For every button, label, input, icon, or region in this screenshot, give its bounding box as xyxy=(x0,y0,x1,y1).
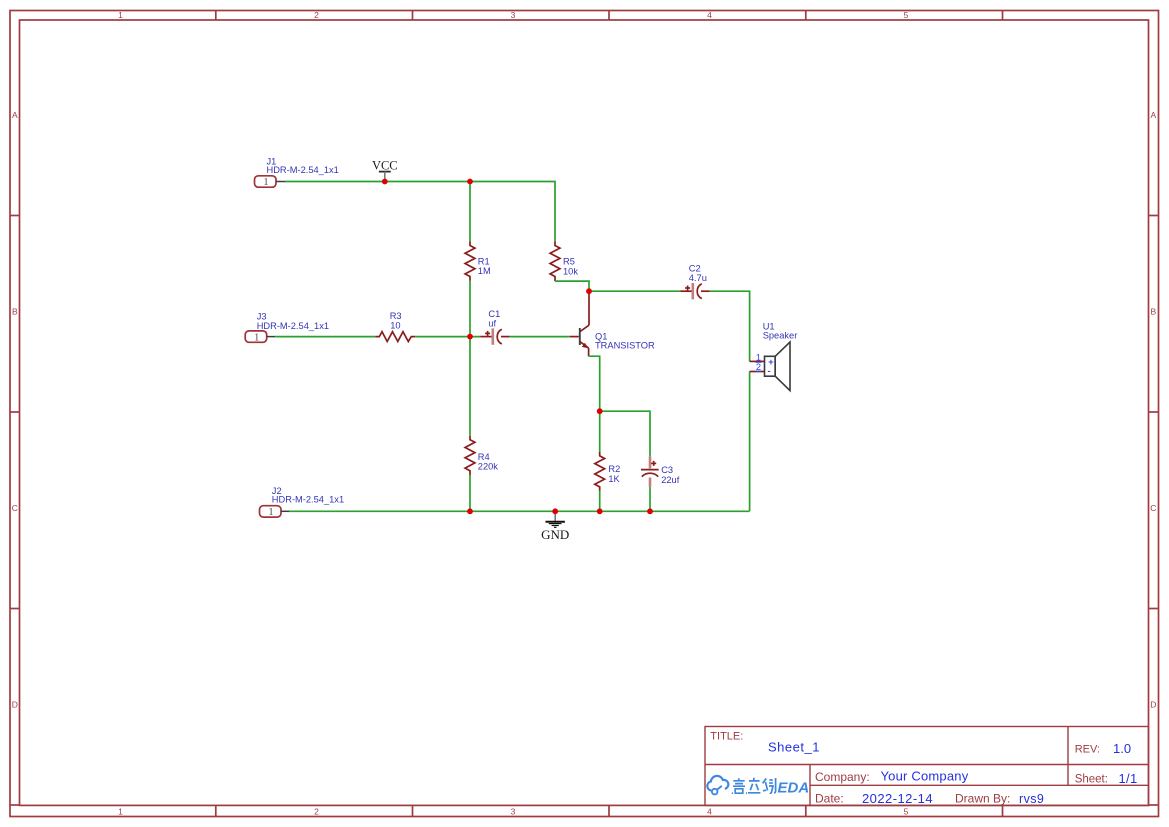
svg-text:1: 1 xyxy=(118,807,123,817)
svg-text:4: 4 xyxy=(707,807,712,817)
resistor R1 1M xyxy=(465,242,491,281)
logo JLCEDA xyxy=(707,776,728,795)
resistor R5 10k xyxy=(550,242,578,282)
wire ground rail xyxy=(289,510,749,512)
svg-text:REV:: REV: xyxy=(1075,744,1100,756)
svg-text:1: 1 xyxy=(756,352,761,362)
svg-text:rvs9: rvs9 xyxy=(1019,792,1044,806)
wire collector node to C2 xyxy=(589,290,680,292)
junction ground rail at GND xyxy=(552,508,558,514)
svg-text:C: C xyxy=(1150,503,1156,513)
svg-text:Speaker: Speaker xyxy=(763,331,798,341)
svg-text:4: 4 xyxy=(707,10,712,20)
svg-text:C: C xyxy=(12,503,18,513)
svg-text:4.7u: 4.7u xyxy=(689,273,707,283)
resistor R3 10 xyxy=(375,311,415,341)
wire R3 to C1 junction xyxy=(415,336,480,338)
svg-text:Company:: Company: xyxy=(815,770,870,784)
svg-text:1: 1 xyxy=(254,332,259,343)
svg-text:5: 5 xyxy=(904,807,909,817)
wire R2 to ground rail xyxy=(599,491,601,511)
svg-text:B: B xyxy=(12,307,18,317)
connector J3 xyxy=(245,312,329,344)
svg-text:10: 10 xyxy=(390,321,400,331)
svg-text:uf: uf xyxy=(488,319,496,329)
svg-text:TRANSISTOR: TRANSISTOR xyxy=(595,340,655,350)
svg-text:3: 3 xyxy=(511,807,516,817)
resistor R2 1K xyxy=(595,452,621,491)
wire R1 bottom to mid rail xyxy=(469,281,471,337)
capacitor C1 uf xyxy=(480,309,509,345)
junction mid rail at R1/R4 xyxy=(467,334,473,340)
svg-text:1.0: 1.0 xyxy=(1113,741,1131,756)
svg-text:22uf: 22uf xyxy=(661,475,680,485)
svg-text:-: - xyxy=(768,366,771,377)
speaker U1 xyxy=(750,322,798,391)
power flag VCC xyxy=(372,158,398,181)
junction top rail at R1 xyxy=(467,179,473,185)
svg-text:2: 2 xyxy=(314,807,319,817)
wire R4 to ground rail xyxy=(469,475,471,511)
junction VCC dot xyxy=(382,179,388,185)
svg-text:Date:: Date: xyxy=(815,791,844,805)
connector J2 xyxy=(260,486,345,518)
connector J1 xyxy=(255,156,339,188)
svg-text:C1: C1 xyxy=(488,309,500,319)
junction collector node xyxy=(586,288,592,294)
junction ground rail at R2 xyxy=(597,508,603,514)
svg-text:3: 3 xyxy=(511,10,516,20)
wire C3 to ground rail xyxy=(649,487,651,512)
svg-text:Sheet:: Sheet: xyxy=(1075,774,1108,786)
svg-text:10k: 10k xyxy=(563,266,578,276)
wire emitter to R2 node xyxy=(589,356,600,411)
svg-text:VCC: VCC xyxy=(372,158,398,172)
svg-text:Your Company: Your Company xyxy=(881,768,969,783)
capacitor C3 22uf xyxy=(641,456,680,486)
svg-text:Drawn By:: Drawn By: xyxy=(955,791,1010,805)
junction emitter node xyxy=(597,408,603,414)
wire emitter node down to R2 xyxy=(599,411,601,452)
svg-text:A: A xyxy=(12,110,18,120)
svg-text:C3: C3 xyxy=(661,465,673,475)
capacitor C2 4.7u xyxy=(680,263,709,299)
junction ground rail at C3 xyxy=(647,508,653,514)
svg-text:1: 1 xyxy=(264,177,269,188)
wire speaker pin2 to ground rail xyxy=(749,372,751,512)
svg-text:1/1: 1/1 xyxy=(1119,771,1138,786)
wire R1 top drop xyxy=(469,182,471,242)
svg-text:2: 2 xyxy=(756,362,761,372)
wire R1 junction down to R4 xyxy=(469,337,471,436)
junction ground rail at R4 xyxy=(467,508,473,514)
svg-text:A: A xyxy=(1150,110,1156,120)
title block xyxy=(705,727,1149,806)
svg-text:EDA: EDA xyxy=(778,780,810,797)
transistor Q1 xyxy=(570,291,655,356)
svg-text:HDR-M-2.54_1x1: HDR-M-2.54_1x1 xyxy=(272,495,344,505)
svg-text:D: D xyxy=(1150,700,1156,710)
wire R5 bottom to collector node xyxy=(555,281,589,291)
svg-text:1: 1 xyxy=(118,10,123,20)
svg-text:D: D xyxy=(12,700,18,710)
svg-text:R2: R2 xyxy=(608,464,620,474)
wire J3 to R3 xyxy=(275,336,375,338)
svg-text:220k: 220k xyxy=(478,461,499,471)
svg-text:1: 1 xyxy=(269,507,274,518)
svg-text:Sheet_1: Sheet_1 xyxy=(768,740,820,755)
ground symbol GND xyxy=(541,511,569,542)
wire C1 to Q1 base xyxy=(510,336,570,338)
svg-text:R5: R5 xyxy=(563,257,575,267)
wire top rail J1 to R5 corner xyxy=(286,182,555,242)
resistor R4 220k xyxy=(465,436,498,475)
svg-text:TITLE:: TITLE: xyxy=(710,731,743,743)
svg-text:B: B xyxy=(1150,307,1156,317)
wire C2 to speaker pin1 xyxy=(710,291,750,361)
svg-text:5: 5 xyxy=(904,10,909,20)
svg-text:HDR-M-2.54_1x1: HDR-M-2.54_1x1 xyxy=(257,321,329,331)
svg-text:GND: GND xyxy=(541,527,569,542)
wire emitter node to C3 branch xyxy=(600,411,650,456)
svg-text:1K: 1K xyxy=(608,474,620,484)
svg-text:2: 2 xyxy=(314,10,319,20)
svg-text:2022-12-14: 2022-12-14 xyxy=(862,791,933,806)
svg-text:HDR-M-2.54_1x1: HDR-M-2.54_1x1 xyxy=(267,165,339,175)
svg-text:1M: 1M xyxy=(478,266,491,276)
